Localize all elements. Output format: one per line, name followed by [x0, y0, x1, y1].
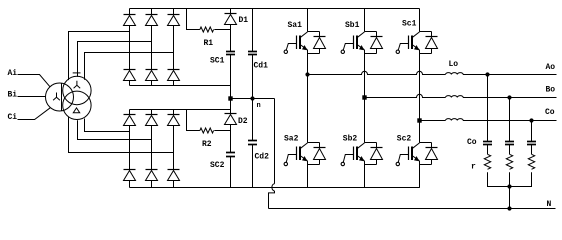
bridge1 negative rail [130, 85, 231, 87]
IGBT switch Sa2 body bar [299, 147, 301, 161]
capacitor SC2 [226, 152, 235, 154]
bridge1 leg2 mid wire [151, 26, 153, 70]
wire Y-secondary phase1 to rectifier1 leg1 [69, 32, 130, 81]
svg-text:D2: D2 [238, 117, 248, 126]
inductor Lo phase B [446, 96, 464, 98]
IGBT switch Sa1 emitter lead with arrow [301, 45, 308, 50]
bridge1 leg3 bottom diode [168, 69, 180, 71]
IGBT switch Sb1 emitter lead with arrow [358, 45, 365, 50]
IGBT switch Sa2 gate terminal circle [284, 162, 287, 165]
svg-text:Sa1: Sa1 [288, 21, 303, 30]
inductor Lo phase C [446, 119, 464, 121]
IGBT switch Sa2 gate lead [286, 155, 296, 163]
IGBT switch Sa2 gate bar [296, 147, 298, 161]
svg-text:SC2: SC2 [210, 161, 225, 170]
IGBT switch Sb1 collector lead [358, 32, 365, 37]
secondary delta symbol [73, 108, 79, 113]
bridge1 leg2 bottom diode [146, 69, 158, 71]
IGBT switch Sc1 collector lead [413, 32, 420, 37]
antiparallel diode of Sc1 [420, 31, 432, 33]
resistor R1 [187, 9, 200, 30]
diode D1 [230, 9, 232, 14]
transformer secondary winding (delta) circle [63, 91, 91, 119]
IGBT switch Sc1 gate bar [408, 36, 410, 50]
IGBT switch Sb2 gate terminal circle [341, 162, 344, 165]
resistor R2 [187, 110, 200, 131]
IGBT switch Sa1 collector lead [301, 32, 308, 37]
svg-text:R1: R1 [204, 39, 214, 48]
bridge2 leg1 top diode [124, 114, 136, 116]
bridge2 leg2 bottom diode [146, 169, 158, 171]
bridge2 leg1 upper wire [129, 110, 131, 115]
svg-text:Co: Co [467, 138, 477, 147]
IGBT switch Sc1 body bar [411, 36, 413, 50]
wire Y-secondary phase2 to rectifier1 leg2 [78, 42, 152, 77]
bridge1 leg1 mid wire [129, 26, 131, 70]
bridge1 leg1 lower wire [129, 81, 131, 86]
junction Cd column / node n [250, 96, 254, 100]
transformer core line [61, 84, 63, 111]
phase A output line with wire hops [308, 71, 446, 74]
svg-text:r: r [471, 162, 476, 171]
neutral line N [269, 208, 556, 210]
filter branch tie bar [488, 186, 532, 188]
bridge2 leg2 mid wire [151, 126, 153, 170]
IGBT switch Sc1 gate lead [398, 44, 408, 50]
winding tap bar [73, 72, 81, 74]
phase B output line with wire hop [365, 94, 446, 97]
transformer primary winding (Y) circle [46, 83, 74, 111]
bridge1 leg3 lower wire [173, 81, 175, 86]
bridge2 leg1 bottom diode [124, 169, 136, 171]
IGBT switch Sb1 body bar [356, 36, 358, 50]
IGBT switch Sc2 body bar [411, 147, 413, 161]
bridge2 leg3 lower wire [173, 181, 175, 188]
junction SC column / node n [228, 96, 232, 100]
phase A line to output Ao [463, 74, 557, 76]
IGBT switch Sa1 body bar [299, 36, 301, 50]
svg-text:Sc1: Sc1 [402, 20, 417, 29]
damping resistor r branch A [487, 145, 489, 155]
IGBT switch Sb2 collector lead [358, 143, 365, 148]
wire tie bar to neutral line [509, 187, 511, 209]
junction tie bar center [507, 184, 511, 188]
primary Y symbol [53, 93, 60, 101]
IGBT switch Sb1 gate terminal circle [341, 50, 344, 53]
IGBT switch Sa1 gate terminal circle [284, 50, 287, 53]
antiparallel diode of Sa2 [308, 142, 320, 144]
IGBT switch Sc2 gate terminal circle [396, 162, 399, 165]
inverter leg Sa mid wire [307, 50, 309, 143]
wire Bi to transformer [18, 96, 46, 98]
bridge1 leg3 upper wire [173, 9, 175, 15]
bridge1 leg2 upper wire [151, 9, 153, 15]
node n rail [231, 98, 275, 100]
svg-text:Bo: Bo [546, 86, 556, 95]
bridge1 leg1 bottom diode [124, 69, 136, 71]
IGBT switch Sa1 gate lead [286, 44, 296, 50]
wire Y-secondary phase3 to rectifier1 leg3 [85, 53, 174, 80]
inverter leg Sc emitter wire to bottom rail [419, 161, 421, 188]
inverter leg Sc collector wire from top rail [419, 9, 421, 32]
IGBT switch Sa2 collector lead [301, 143, 308, 148]
phase C line to output Co [463, 120, 557, 122]
wire node n drop with hop over bottom rail [274, 99, 276, 184]
bridge2 negative rail to bottom rail [130, 187, 420, 189]
antiparallel diode of Sa1 [308, 31, 320, 33]
IGBT switch Sc2 gate lead [398, 155, 408, 163]
svg-text:Ai: Ai [8, 69, 18, 78]
capacitor Cd2 [252, 99, 254, 141]
bridge2 leg3 bottom diode [168, 169, 180, 171]
svg-text:Ao: Ao [546, 63, 556, 72]
svg-text:Co: Co [545, 108, 555, 117]
phase node Sa junction dot [305, 72, 309, 76]
branch C junction dot on phase line [529, 118, 533, 122]
IGBT switch Sb2 body bar [356, 147, 358, 161]
diode D2 [230, 99, 232, 114]
wire delta-secondary phase2 to rectifier2 leg2 [78, 120, 152, 139]
IGBT switch Sc2 emitter lead with arrow [413, 156, 420, 161]
svg-text:Bi: Bi [8, 91, 18, 100]
svg-text:Cd1: Cd1 [254, 62, 269, 71]
filter capacitor Co branch B [509, 98, 511, 142]
inverter leg Sc mid wire [419, 50, 421, 143]
branch A junction dot on phase line [485, 72, 489, 76]
IGBT switch Sb2 emitter lead with arrow [358, 156, 365, 161]
svg-text:Cd2: Cd2 [255, 153, 270, 162]
phase C output line [420, 120, 446, 122]
damping resistor r branch C [531, 145, 533, 155]
svg-text:N: N [547, 200, 552, 209]
damping resistor r branch B [509, 145, 511, 155]
IGBT switch Sb1 gate bar [353, 36, 355, 50]
IGBT switch Sa1 gate bar [296, 36, 298, 50]
IGBT switch Sc2 collector lead [413, 143, 420, 148]
junction neutral line [507, 206, 511, 210]
bridge2 leg3 mid wire [173, 126, 175, 170]
inductor Lo phase A [446, 73, 464, 75]
IGBT switch Sc2 gate bar [408, 147, 410, 161]
bridge2 leg1 lower wire [129, 181, 131, 188]
bridge1 leg3 top diode [168, 14, 180, 16]
bridge2 leg1 mid wire [129, 126, 131, 170]
transformer secondary winding (Y) circle [63, 76, 91, 104]
bridge2 leg3 top diode [168, 114, 180, 116]
inverter leg Sa emitter wire to bottom rail [307, 161, 309, 188]
rectifier bridge 1 positive rail (top DC rail) [130, 8, 420, 10]
bridge1 leg3 mid wire [173, 26, 175, 70]
branch B junction dot on phase line [507, 95, 511, 99]
svg-text:R2: R2 [202, 140, 212, 149]
bridge2 leg2 upper wire [151, 110, 153, 115]
wire delta-secondary phase3 to rectifier2 leg3 [69, 117, 174, 152]
bridge2 leg2 top diode [146, 114, 158, 116]
inverter leg Sb collector wire from top rail [364, 9, 366, 32]
capacitor SC1 [226, 51, 235, 53]
inverter leg Sa collector wire from top rail [307, 9, 309, 32]
svg-text:Sb1: Sb1 [345, 21, 360, 30]
IGBT switch Sc1 emitter lead with arrow [413, 45, 420, 50]
bridge1 leg1 upper wire [129, 9, 131, 15]
capacitor Cd1 [252, 9, 254, 52]
filter capacitor Co branch C [531, 121, 533, 142]
bridge2 leg3 upper wire [173, 110, 175, 115]
bridge1 leg2 top diode [146, 14, 158, 16]
IGBT switch Sc1 gate terminal circle [396, 50, 399, 53]
antiparallel diode of Sb1 [365, 31, 377, 33]
wire delta-secondary phase1 to rectifier2 leg1 [85, 119, 130, 132]
svg-text:SC1: SC1 [210, 57, 225, 66]
IGBT switch Sa2 emitter lead with arrow [301, 156, 308, 161]
svg-text:Ci: Ci [8, 113, 18, 122]
bridge2 positive rail [130, 109, 231, 111]
IGBT switch Sb2 gate bar [353, 147, 355, 161]
svg-text:Lo: Lo [449, 60, 459, 69]
phase node Sc junction dot [417, 118, 421, 122]
svg-text:Sc2: Sc2 [397, 134, 412, 143]
svg-text:Sb2: Sb2 [343, 134, 358, 143]
antiparallel diode of Sb2 [365, 142, 377, 144]
antiparallel diode of Sc2 [420, 142, 432, 144]
svg-text:n: n [257, 102, 261, 110]
wire Ai to transformer [18, 75, 50, 87]
IGBT switch Sb1 gate lead [343, 44, 353, 50]
filter capacitor Co branch A [487, 75, 489, 142]
IGBT switch Sb2 gate lead [343, 155, 353, 163]
wire Ci to transformer [18, 108, 51, 120]
inverter leg Sb emitter wire to bottom rail [364, 161, 366, 188]
bridge1 leg1 top diode [124, 14, 136, 16]
bridge1 leg2 lower wire [151, 81, 153, 86]
secondary Y symbol [74, 81, 81, 89]
phase node Sb junction dot [362, 95, 366, 99]
svg-text:Sa2: Sa2 [284, 135, 299, 144]
bridge2 leg2 lower wire [151, 181, 153, 188]
inverter leg Sb mid wire [364, 50, 366, 143]
phase B line to output Bo [463, 97, 557, 99]
svg-text:D1: D1 [239, 16, 249, 25]
